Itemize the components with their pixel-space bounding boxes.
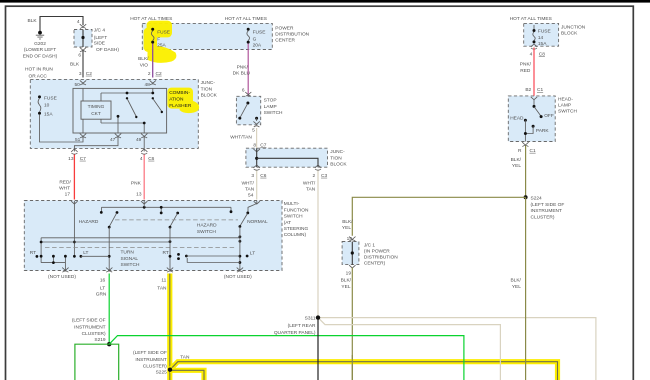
svg-text:YEL: YEL	[512, 284, 521, 290]
wire pin 49 to terminal 4 C6	[143, 137, 145, 152]
svg-text:13: 13	[68, 156, 74, 162]
svg-text:(AT: (AT	[284, 220, 291, 226]
stop lamp switch	[236, 96, 260, 125]
MFS: pivot wire pin 16	[108, 227, 110, 270]
connector chevron pin 6	[80, 48, 86, 52]
svg-text:20A: 20A	[253, 43, 262, 49]
wire BLK/YEL head lamp switch to S224	[525, 146, 527, 198]
svg-text:DK BLU: DK BLU	[233, 71, 251, 77]
svg-text:RT: RT	[30, 250, 36, 256]
terminal 4 C6 chevron	[141, 149, 147, 154]
pin 17 chevron	[71, 201, 77, 204]
svg-text:47: 47	[110, 137, 116, 143]
svg-text:51: 51	[75, 137, 81, 143]
svg-text:4: 4	[77, 19, 80, 25]
svg-text:C1: C1	[537, 87, 543, 93]
svg-text:CENTER: CENTER	[275, 38, 295, 44]
wire BLK/YEL S224 branch to J/C 1	[352, 197, 525, 236]
svg-text:YEL: YEL	[342, 225, 351, 231]
svg-text:WHT/: WHT/	[242, 180, 255, 186]
svg-text:STEERING: STEERING	[284, 226, 309, 232]
svg-text:TAN: TAN	[245, 187, 255, 193]
svg-text:BLK/: BLK/	[511, 157, 522, 163]
splice S219	[107, 342, 111, 346]
MFS: left contact group	[41, 238, 65, 271]
svg-text:YEL: YEL	[512, 163, 521, 169]
svg-text:LT: LT	[250, 250, 255, 256]
MFS: mechanical linkage dashes	[45, 220, 238, 248]
svg-text:TAN: TAN	[306, 187, 316, 193]
pin 54 chevron	[254, 201, 260, 204]
svg-text:SWITCH: SWITCH	[558, 109, 577, 115]
svg-text:S225: S225	[156, 369, 168, 375]
svg-text:QUARTER PANEL): QUARTER PANEL)	[274, 330, 316, 336]
ground G202	[23, 31, 58, 60]
svg-text:17: 17	[65, 192, 71, 198]
svg-text:J/C 1: J/C 1	[364, 243, 376, 249]
J/C 4 connector	[74, 28, 119, 53]
svg-text:15A: 15A	[44, 112, 53, 118]
svg-text:STOP: STOP	[264, 98, 277, 104]
wire WHT/TAN S311 second run right	[318, 318, 500, 380]
svg-text:DISTRIBUTION: DISTRIBUTION	[275, 32, 309, 38]
svg-text:BLOCK: BLOCK	[561, 31, 578, 37]
svg-text:G: G	[253, 36, 257, 42]
svg-text:WHT/TAN: WHT/TAN	[230, 134, 252, 140]
svg-text:BLOCK: BLOCK	[330, 162, 347, 168]
svg-text:FUSE: FUSE	[253, 30, 266, 36]
svg-text:S311: S311	[305, 316, 316, 322]
svg-text:15A: 15A	[538, 41, 547, 47]
svg-text:SIDE: SIDE	[94, 41, 105, 47]
svg-text:BLK: BLK	[28, 18, 38, 24]
svg-text:3: 3	[79, 71, 82, 77]
svg-text:(NOT USED): (NOT USED)	[224, 274, 252, 280]
svg-text:TION: TION	[201, 86, 213, 92]
svg-text:YEL: YEL	[341, 284, 350, 290]
wire BLK J/C4 to junction block	[82, 50, 84, 78]
svg-text:ATION: ATION	[169, 97, 184, 103]
wire LT GRN S219 branch right-down	[109, 344, 119, 380]
svg-text:COMBIN-: COMBIN-	[169, 90, 190, 96]
pin 4 C8 chevron	[531, 44, 537, 49]
svg-text:PNK/: PNK/	[237, 64, 249, 70]
internal wire to pin 2 C3	[257, 158, 318, 167]
svg-text:R: R	[518, 148, 522, 154]
svg-text:SWITCH: SWITCH	[284, 214, 303, 220]
svg-text:BLK/: BLK/	[510, 278, 521, 284]
svg-text:LAMP: LAMP	[558, 103, 571, 109]
svg-text:C1: C1	[530, 148, 536, 154]
svg-text:RED/: RED/	[59, 180, 71, 186]
svg-text:13: 13	[136, 192, 142, 198]
svg-text:CKT: CKT	[91, 111, 101, 117]
svg-text:11: 11	[161, 278, 166, 284]
svg-text:C2: C2	[86, 71, 92, 77]
svg-text:DISTRIBUTION: DISTRIBUTION	[364, 254, 398, 260]
svg-text:SIGNAL: SIGNAL	[121, 256, 139, 262]
svg-text:OFF: OFF	[544, 113, 554, 119]
svg-text:PARK: PARK	[536, 128, 550, 134]
svg-text:19: 19	[346, 270, 352, 276]
svg-text:4: 4	[140, 156, 143, 162]
svg-text:RT: RT	[163, 250, 169, 256]
svg-text:(NOT USED): (NOT USED)	[48, 274, 76, 280]
pin 2 C3 chevron	[315, 165, 321, 170]
wire pin 47 to terminal 13 C7	[74, 137, 118, 152]
svg-text:C8: C8	[539, 51, 545, 57]
svg-text:INSTRUMENT: INSTRUMENT	[531, 208, 563, 214]
svg-text:COLUMN): COLUMN)	[284, 232, 307, 238]
svg-text:INSTRUMENT: INSTRUMENT	[135, 357, 167, 363]
wire TAN branch S225 right-down	[170, 370, 204, 380]
fuse 14 15A	[533, 29, 536, 32]
svg-text:S219: S219	[94, 337, 106, 343]
wire TAN (yellow highlighted) pin 11 to S225	[167, 274, 172, 370]
wire RED/WHT 13 C7 to multi-function switch pin 17	[73, 155, 75, 200]
wire BLK/YEL J/C1 crossing overlay	[351, 355, 353, 380]
pin 13 chevron	[141, 201, 147, 204]
svg-text:C7: C7	[260, 142, 266, 148]
svg-text:HAZARD: HAZARD	[197, 223, 217, 229]
svg-text:BLOCK: BLOCK	[201, 93, 218, 99]
svg-text:3: 3	[251, 173, 254, 179]
svg-text:JUNC-: JUNC-	[201, 80, 216, 86]
pin 3 C6 chevron	[254, 165, 260, 170]
svg-text:HEAD: HEAD	[510, 116, 524, 122]
MFS: hazard feed bus	[102, 207, 232, 212]
MFS: right contact run	[185, 255, 188, 258]
svg-text:NORMAL: NORMAL	[247, 219, 268, 225]
wire TAN branch S225 down	[167, 370, 172, 380]
svg-text:SWITCH: SWITCH	[197, 229, 216, 235]
svg-text:6: 6	[78, 53, 81, 59]
svg-text:25A: 25A	[157, 43, 166, 49]
svg-text:B2: B2	[525, 87, 531, 93]
svg-text:C7: C7	[80, 156, 86, 162]
MFS bottom pin 11	[167, 268, 173, 273]
MFS bottom pin (not used) right	[237, 268, 243, 273]
svg-text:10: 10	[44, 103, 50, 109]
svg-text:J/C 4: J/C 4	[94, 28, 106, 34]
flasher internal wiring	[83, 88, 153, 133]
svg-text:TAN: TAN	[180, 355, 190, 361]
svg-text:HOT AT ALL TIMES: HOT AT ALL TIMES	[225, 16, 267, 22]
svg-text:HOT IN RUN: HOT IN RUN	[25, 67, 53, 73]
svg-text:RED: RED	[520, 68, 531, 74]
flasher switch blade 1	[126, 97, 128, 99]
svg-text:(LEFT REAR: (LEFT REAR	[288, 323, 316, 329]
MFS: pin 54 jog to normal contact	[248, 201, 257, 212]
svg-text:2: 2	[148, 71, 151, 77]
wire WHT/TAN stop lamp to junction block	[256, 128, 258, 148]
svg-text:VIO: VIO	[140, 62, 149, 68]
timing ckt box	[81, 101, 111, 119]
MFS bottom pin (not used) left	[62, 268, 68, 273]
wire BLK/YEL J/C 1 to bottom	[351, 268, 353, 380]
wire LT GRN pin 16 to S219	[108, 274, 110, 345]
svg-text:SWITCH: SWITCH	[121, 262, 140, 268]
svg-text:G202: G202	[34, 41, 46, 47]
svg-text:JUNC-: JUNC-	[330, 149, 345, 155]
svg-text:(LEFT SIDE OF: (LEFT SIDE OF	[72, 317, 106, 323]
svg-text:POWER: POWER	[275, 25, 294, 31]
svg-text:INSTRUMENT: INSTRUMENT	[74, 324, 106, 330]
svg-text:54: 54	[248, 193, 254, 199]
wire LT GRN S219 main run right	[109, 336, 464, 380]
wire PNK 4 C6 to multi-function switch pin 13	[143, 155, 145, 200]
svg-text:HAZARD: HAZARD	[79, 219, 99, 225]
svg-text:48: 48	[144, 82, 150, 88]
combination flasher inner box	[73, 88, 167, 133]
svg-text:CLUSTER): CLUSTER)	[531, 215, 555, 221]
wire BLK/YEL S224 down to bottom	[525, 197, 527, 380]
svg-text:CLUSTER): CLUSTER)	[82, 331, 106, 337]
svg-text:TIMING: TIMING	[88, 104, 105, 110]
svg-text:OR ACC: OR ACC	[29, 74, 48, 80]
svg-text:END OF DASH): END OF DASH)	[23, 53, 58, 59]
svg-text:WHT: WHT	[59, 186, 70, 192]
MFS: hazard switch blade middle	[176, 212, 179, 215]
svg-text:C6: C6	[260, 173, 266, 179]
svg-text:PNK: PNK	[131, 180, 142, 186]
svg-text:F: F	[157, 36, 160, 42]
svg-text:FLASHER: FLASHER	[169, 103, 192, 109]
svg-text:(IN POWER: (IN POWER	[364, 249, 390, 255]
svg-text:SWITCH: SWITCH	[264, 110, 283, 116]
svg-text:C2: C2	[156, 71, 162, 77]
MFS: pivot wire pin 11	[169, 227, 171, 270]
svg-text:CENTER): CENTER)	[364, 260, 386, 266]
svg-text:MULTI-: MULTI-	[284, 201, 300, 207]
svg-text:14: 14	[538, 35, 544, 41]
svg-text:FUNCTION: FUNCTION	[284, 207, 309, 213]
power distribution center box	[142, 23, 272, 49]
svg-text:LT: LT	[83, 250, 88, 256]
MFS bottom pin 16	[106, 268, 112, 273]
wire BLK S311 down	[317, 318, 319, 380]
MFS: normal pivot wire	[239, 227, 241, 271]
pin R C1 chevron	[522, 142, 528, 146]
svg-text:BLK/: BLK/	[342, 219, 353, 225]
svg-text:BLK/: BLK/	[138, 56, 149, 62]
svg-text:S224: S224	[531, 196, 543, 202]
highlighter over FUSE F	[144, 21, 177, 63]
PARK contact	[532, 125, 535, 128]
wire WHT/TAN 3 C6 to multi-function switch pin 54	[256, 171, 258, 200]
svg-text:4: 4	[530, 51, 533, 57]
svg-text:PNK/: PNK/	[520, 62, 532, 68]
splice S224	[524, 195, 528, 199]
svg-text:TURN: TURN	[121, 250, 135, 256]
svg-text:FUSE: FUSE	[538, 29, 551, 35]
wire TAN main run S225 to right	[170, 362, 558, 380]
svg-text:BLK/: BLK/	[341, 278, 352, 284]
svg-text:49: 49	[136, 137, 142, 143]
top window bar	[0, 0, 650, 3]
fuse F 25A	[151, 28, 170, 49]
wire PNK/RED fuse 14 to head lamp switch	[533, 48, 535, 96]
wire BLK from G202 to J/C 4	[40, 17, 83, 33]
svg-text:OF DASH): OF DASH)	[96, 47, 119, 53]
MFS: pin 13 stub	[143, 201, 145, 207]
wire WHT/TAN S311 run right	[318, 318, 596, 380]
terminal 13 C7 chevron	[71, 149, 77, 154]
svg-text:(LOWER LEFT: (LOWER LEFT	[24, 47, 56, 53]
splice S225	[168, 368, 172, 372]
fuse 10 15A	[38, 95, 57, 117]
svg-text:LT: LT	[100, 285, 105, 291]
highlighter over COMBINATION FLASHER	[167, 88, 199, 114]
svg-text:WHT/: WHT/	[303, 180, 316, 186]
right: junction block with fuse 14	[524, 23, 559, 46]
svg-text:HOT AT ALL TIMES: HOT AT ALL TIMES	[510, 16, 552, 22]
wire PNK/DK BLU fuse G to stop lamp switch	[247, 44, 249, 97]
svg-text:FUSE: FUSE	[44, 95, 57, 101]
svg-text:C3: C3	[321, 173, 327, 179]
multi-function switch box	[24, 201, 282, 271]
svg-text:GRN: GRN	[96, 291, 107, 297]
wire BLK/VIO fuse F to junction block	[152, 44, 154, 78]
junction block (left, with combination flasher)	[30, 79, 198, 148]
svg-text:HEAD-: HEAD-	[558, 96, 573, 102]
flasher switch blade 2	[152, 97, 154, 99]
svg-text:2: 2	[313, 173, 316, 179]
head lamp switch blade to OFF	[534, 107, 540, 116]
svg-text:(LEFT SIDE OF: (LEFT SIDE OF	[133, 350, 167, 356]
svg-text:6: 6	[242, 87, 245, 93]
J/C 1 connector	[342, 242, 359, 265]
MFS: bus 1	[41, 237, 240, 239]
MFS: bus 2	[41, 241, 170, 243]
svg-text:C6: C6	[148, 156, 154, 162]
svg-text:JUNCTION: JUNCTION	[561, 25, 586, 31]
svg-text:5: 5	[252, 127, 255, 133]
connector chevron pin 4	[80, 24, 86, 28]
svg-text:TAN: TAN	[157, 285, 167, 291]
head lamp switch output wiring	[525, 120, 533, 141]
svg-text:8: 8	[253, 142, 256, 148]
wire WHT/TAN 2 C3 to S311	[317, 171, 319, 318]
fuse G 20A	[247, 28, 266, 49]
svg-text:BLK: BLK	[70, 61, 80, 67]
wire LT GRN S219 branch left-down	[75, 344, 109, 380]
svg-text:50: 50	[74, 82, 80, 88]
svg-text:FUSE: FUSE	[157, 30, 170, 36]
MFS: pin 17 wire	[73, 201, 75, 256]
junction block (middle)	[246, 148, 328, 167]
svg-text:LAMP: LAMP	[264, 104, 277, 110]
svg-text:(LEFT: (LEFT	[94, 35, 107, 41]
svg-text:CLUSTER): CLUSTER)	[143, 363, 167, 369]
svg-text:16: 16	[100, 278, 106, 284]
fuse 10 wire to pin 51	[40, 115, 84, 142]
svg-text:TION: TION	[330, 155, 342, 161]
head lamp switch box	[508, 96, 555, 142]
svg-text:(LEFT SIDE OF: (LEFT SIDE OF	[531, 202, 565, 208]
